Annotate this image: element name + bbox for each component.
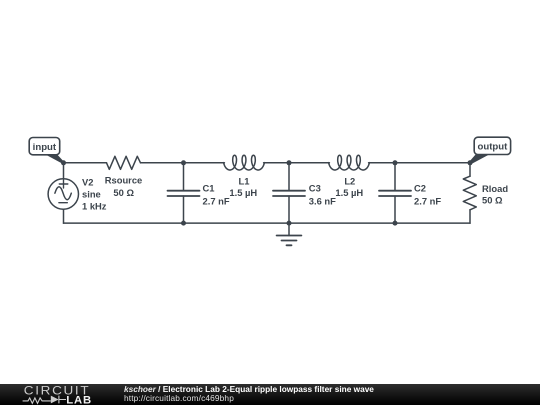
wire: node N3 to output node (395, 162, 470, 164)
svg-text:C2: C2 (414, 183, 426, 194)
node N2 junction dot (287, 160, 292, 165)
value label Rsource 50 Ω (105, 175, 143, 198)
node N1 bottom junction dot (181, 221, 186, 226)
svg-text:V2: V2 (82, 177, 93, 188)
wire: node N2 to L2 left terminal (289, 162, 329, 164)
svg-text:LAB: LAB (66, 394, 92, 405)
ground (277, 223, 302, 245)
svg-text:1.5 µH: 1.5 µH (335, 187, 363, 198)
wire top rail: source node to Rsource left terminal (64, 162, 107, 164)
resistor R2 Rload bottom lead wire (469, 210, 471, 223)
svg-text:50 Ω: 50 Ω (482, 194, 503, 205)
capacitor C1 bottom lead wire (183, 196, 185, 223)
node N1 junction dot (181, 160, 186, 165)
svg-text:L2: L2 (344, 175, 355, 186)
capacitor C2 bottom lead wire (394, 196, 396, 223)
capacitor C1 (168, 191, 200, 196)
value label L2 1.5 µH (335, 175, 363, 198)
svg-text:input: input (33, 142, 57, 153)
node output flag pointer (469, 154, 489, 164)
svg-text:1 kHz: 1 kHz (82, 200, 107, 211)
wire: node N1 to L1 left terminal (184, 162, 225, 164)
svg-text:L1: L1 (239, 175, 250, 186)
capacitor C2 (379, 191, 411, 196)
svg-text:C3: C3 (309, 183, 321, 194)
value label L1 1.5 µH (229, 175, 257, 198)
svg-text:C1: C1 (203, 183, 215, 194)
svg-text:3.6 nF: 3.6 nF (309, 195, 336, 206)
node N3 junction dot (393, 160, 398, 165)
svg-text:Rload: Rload (482, 183, 508, 194)
node N2 bottom junction dot (ground) (287, 221, 292, 226)
value label C3 3.6 nF (309, 183, 336, 207)
capacitor C2 top lead wire (394, 163, 396, 191)
value label V2 sine 1 kHz (82, 177, 107, 212)
node output junction dot (468, 160, 473, 165)
svg-text:2.7 nF: 2.7 nF (203, 195, 230, 206)
value label C1 2.7 nF (203, 183, 230, 207)
capacitor C3 (273, 191, 305, 196)
voltage source V2 (48, 179, 78, 209)
voltage source V2 top lead wire (63, 163, 65, 179)
capacitor C3 bottom lead wire (288, 196, 290, 223)
node output flag (474, 137, 510, 154)
wire: L2 right terminal to node N3 (369, 162, 395, 164)
value label Rload 50 Ω (482, 183, 508, 206)
inductor L1 (224, 155, 265, 170)
resistor R1 Rsource (107, 156, 141, 169)
svg-text:50 Ω: 50 Ω (113, 187, 134, 198)
svg-text:output: output (477, 142, 508, 153)
svg-text:1.5 µH: 1.5 µH (229, 187, 257, 198)
node N3 bottom junction dot (393, 221, 398, 226)
resistor R2 Rload top lead wire (469, 163, 471, 176)
inductor L2 (329, 155, 370, 170)
node input flag (29, 138, 60, 155)
svg-text:sine: sine (82, 189, 101, 200)
capacitor C3 top lead wire (288, 163, 290, 191)
capacitor C1 top lead wire (183, 163, 185, 191)
voltage source V2 bottom lead wire (63, 209, 65, 223)
node input junction dot (61, 160, 66, 165)
wire: L1 right terminal to node N2 (264, 162, 289, 164)
svg-text:Rsource: Rsource (105, 175, 143, 186)
node input flag pointer (45, 154, 64, 164)
value label C2 2.7 nF (414, 183, 441, 207)
wire bottom rail (64, 222, 471, 224)
svg-text:2.7 nF: 2.7 nF (414, 195, 441, 206)
wire: Rsource right terminal to node N1 (141, 162, 184, 164)
resistor R2 Rload (463, 176, 476, 210)
